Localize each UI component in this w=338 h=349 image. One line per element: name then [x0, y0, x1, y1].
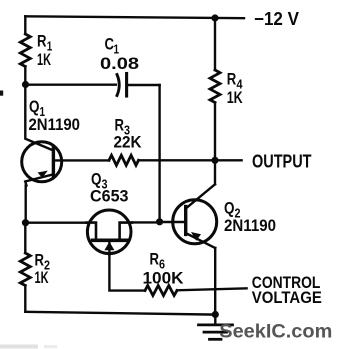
label R6 value: [143, 250, 185, 288]
wire C1 right: [128, 84, 159, 86]
svg-text:R: R: [227, 70, 237, 89]
wire R1 to node: [24, 67, 26, 85]
svg-text:C653: C653: [90, 187, 129, 206]
svg-text:VOLTAGE: VOLTAGE: [252, 288, 322, 307]
svg-text:1K: 1K: [35, 268, 49, 287]
wire ground stub: [214, 315, 216, 324]
ground: [199, 325, 233, 339]
svg-text:R: R: [35, 251, 45, 270]
transistor Q1: [22, 142, 62, 186]
wire C1 left: [26, 83, 116, 85]
wire R6 to control voltage: [177, 288, 247, 290]
wire R4 top: [214, 18, 216, 70]
resistor R6: [145, 286, 177, 296]
resistor R3: [109, 155, 139, 165]
wire C1 to Q2 base (vertical): [158, 85, 160, 222]
resistor R1: [20, 34, 30, 67]
label R3 value: [114, 116, 143, 152]
capacitor C1: [117, 74, 127, 97]
wire left rail upper: [24, 16, 26, 34]
label Q2: [224, 199, 276, 236]
wire Q1 emitter down: [25, 186, 27, 223]
label C1 value: [100, 35, 139, 74]
svg-text:2N1190: 2N1190: [224, 216, 276, 235]
label Q3: [90, 170, 129, 206]
wire Q1 collector: [25, 85, 53, 151]
wire R2 to bottom rail: [24, 286, 26, 312]
label Q1: [29, 97, 81, 134]
resistor R2: [20, 253, 30, 286]
svg-text:0.08: 0.08: [100, 54, 139, 73]
wire Q3 right lead to node: [132, 221, 160, 223]
svg-text:1K: 1K: [37, 50, 51, 69]
svg-text:OUTPUT: OUTPUT: [252, 152, 312, 172]
svg-text:−12 V: −12 V: [254, 9, 299, 29]
faint caption bottom left: [0, 345, 38, 349]
svg-text:R: R: [150, 250, 160, 269]
svg-text:Q: Q: [224, 199, 235, 218]
wire Q3 gate down: [109, 255, 145, 291]
svg-text:Q: Q: [29, 97, 40, 116]
node R4/Q2/OUTPUT: [211, 157, 218, 164]
wire Q2 emitter down: [214, 248, 216, 315]
svg-text:R: R: [37, 32, 47, 51]
transistor Q2: [173, 184, 217, 248]
node -12V junction: [211, 14, 218, 21]
label CONTROL VOLTAGE: [252, 273, 322, 307]
wire R4 bottom: [214, 103, 216, 161]
transistor Q3: [86, 210, 132, 255]
label R4 value: [227, 70, 244, 108]
wire top rail: [25, 16, 244, 18]
label R1 value: [37, 32, 52, 70]
svg-text:SeekIC.com: SeekIC.com: [219, 320, 332, 342]
wire OUTPUT stub: [215, 159, 242, 161]
svg-text:2N1190: 2N1190: [29, 115, 81, 134]
svg-text:1K: 1K: [227, 88, 244, 107]
wire node to R2: [24, 223, 26, 253]
label R2 value: [35, 251, 51, 288]
resistor R4: [210, 70, 220, 103]
node C1/Q3/Q2 base: [156, 218, 163, 225]
svg-text:100K: 100K: [143, 269, 185, 288]
node Q1 emitter / Q3 / R2: [22, 219, 29, 226]
wire R3 to output node: [139, 159, 216, 161]
wire node to Q3: [26, 221, 87, 223]
node ground junction: [212, 311, 219, 318]
node R1/C1/Q1: [22, 81, 29, 88]
wire node to Q2 base: [160, 221, 186, 223]
edge artifact left: [0, 91, 3, 96]
wire bottom rail: [25, 312, 215, 315]
svg-text:22K: 22K: [114, 133, 143, 152]
wire Q2 collector up: [214, 160, 216, 184]
wire Q1 base to R3: [54, 159, 110, 161]
